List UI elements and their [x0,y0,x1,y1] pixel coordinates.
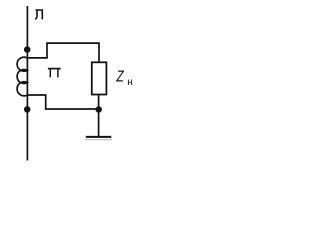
junction dot at ground node [95,106,102,113]
resistor Zн (burden) [92,62,107,94]
current transformer TT winding (3 loops) [17,57,27,96]
junction dot top on line Л [24,46,31,53]
wire: TT top tap to Zн top [27,43,99,62]
wire: Zн bottom to ground node [98,95,100,138]
label Л [35,10,42,19]
ground [86,136,112,138]
svg-text:Z: Z [116,68,125,85]
wire: TT bottom tap to ground node [27,95,98,109]
label ТТ [48,69,61,78]
line Л (primary bus, vertical) [26,6,28,161]
junction dot bottom on line Л [24,106,31,113]
svg-text:н: н [127,77,133,88]
ground shadow line [85,139,113,141]
